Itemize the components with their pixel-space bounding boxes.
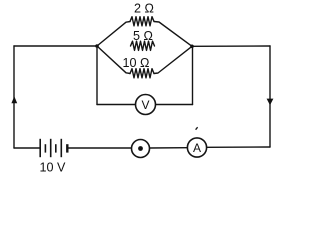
resistor 2-ohm <box>130 17 154 26</box>
battery plate short 3 <box>66 144 68 152</box>
node right <box>190 45 194 49</box>
wire diagonal 10-ohm right to node <box>154 46 192 73</box>
battery plate long 3 <box>60 139 62 157</box>
battery plate long 1 <box>39 139 41 157</box>
battery plate short 1 <box>44 144 46 152</box>
wire plug key to ammeter <box>150 147 188 149</box>
battery plate short 2 <box>55 144 57 152</box>
plug key <box>132 140 150 158</box>
wire left vertical <box>13 46 15 148</box>
battery plate long 2 <box>50 139 52 157</box>
ammeter A <box>187 138 206 157</box>
svg-text:2 Ω: 2 Ω <box>134 1 154 15</box>
wire battery to plug key <box>67 147 131 149</box>
wire diagonal node to 2-ohm left <box>97 22 130 47</box>
current arrow right (down) <box>267 99 274 106</box>
wire top-right horizontal from node <box>192 45 270 47</box>
wire bottom-left to battery <box>14 147 40 149</box>
resistor 5-ohm <box>131 41 155 50</box>
voltmeter V <box>136 95 156 115</box>
wire right vertical <box>269 46 271 147</box>
wire diagonal 2-ohm right to node <box>154 22 192 47</box>
wire voltmeter loop left horizontal <box>97 104 136 106</box>
svg-text:V: V <box>141 98 149 112</box>
battery 10V <box>40 139 67 157</box>
tick above ammeter <box>196 127 198 130</box>
wire voltmeter loop left vertical <box>96 46 98 105</box>
svg-text:A: A <box>193 141 201 155</box>
wire voltmeter loop right horizontal <box>156 104 193 106</box>
wire top-left horizontal to node <box>14 45 97 47</box>
node left <box>95 44 99 48</box>
svg-text:10 Ω: 10 Ω <box>123 56 150 70</box>
wire voltmeter loop right vertical <box>192 46 194 104</box>
wire diagonal node to 10-ohm left <box>97 46 130 74</box>
resistor 10-ohm <box>130 69 154 78</box>
wire ammeter to bottom-right corner <box>207 146 270 148</box>
current arrow left (up) <box>11 96 17 103</box>
svg-text:5 Ω: 5 Ω <box>133 29 153 43</box>
svg-text:10 V: 10 V <box>40 161 67 175</box>
